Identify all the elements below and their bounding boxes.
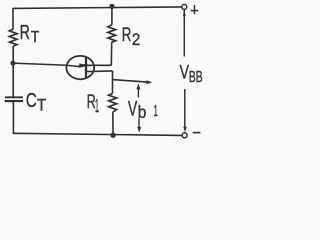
svg-text:T: T — [37, 95, 46, 114]
svg-text:2: 2 — [132, 31, 141, 49]
svg-text:1: 1 — [95, 96, 99, 116]
svg-text:1: 1 — [154, 103, 158, 120]
svg-text:T: T — [31, 29, 40, 46]
svg-text:R: R — [20, 22, 30, 44]
svg-text:C: C — [26, 90, 37, 112]
svg-text:V: V — [128, 97, 138, 120]
svg-text:b: b — [138, 102, 147, 122]
svg-text:B: B — [196, 69, 203, 86]
svg-text:R: R — [122, 24, 132, 46]
